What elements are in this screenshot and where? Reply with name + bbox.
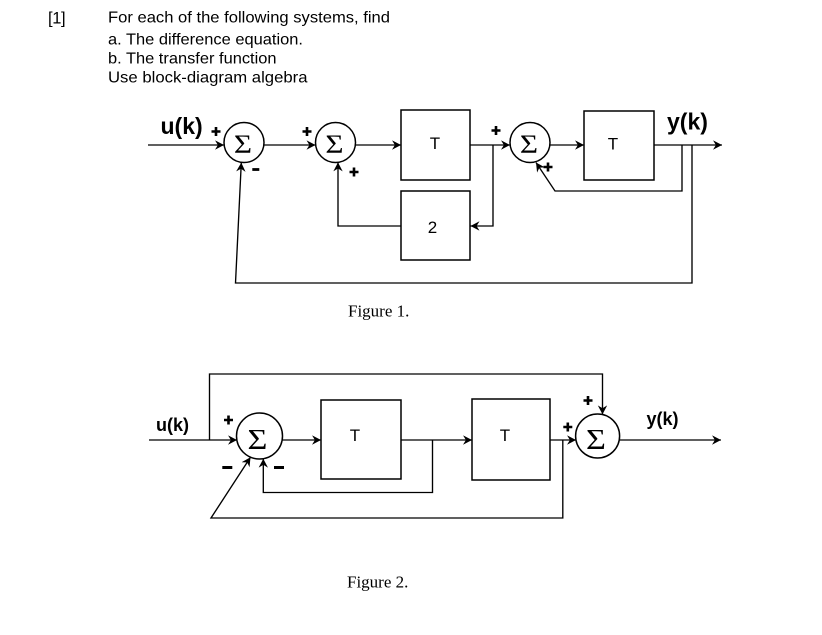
wire input u(k) to summer S4	[149, 439, 237, 441]
block T4	[472, 399, 550, 480]
wire T3 to T4	[401, 439, 472, 441]
minus sign at S4 left lower input	[222, 466, 232, 469]
svg-text:b. The transfer function: b. The transfer function	[108, 51, 277, 68]
svg-text:2: 2	[428, 218, 437, 237]
wire tap to block 2 input	[471, 145, 494, 226]
block 2	[401, 191, 470, 260]
svg-text:Σ: Σ	[586, 424, 606, 456]
svg-text:T: T	[608, 135, 618, 154]
wire inner feedback T3-T4 tap to S4	[263, 440, 432, 493]
svg-text:Figure 1.: Figure 1.	[348, 302, 409, 321]
wire S4 to block T3	[283, 439, 322, 441]
block T3	[321, 400, 401, 479]
wire input u(k) to summer S1	[148, 144, 224, 146]
plus sign at S3 input	[492, 126, 501, 135]
svg-text:T: T	[500, 426, 510, 445]
minus sign at S1 lower input	[252, 168, 259, 171]
minus sign at S4 right lower input	[274, 466, 284, 469]
svg-text:Σ: Σ	[248, 424, 268, 456]
svg-text:u(k): u(k)	[161, 113, 203, 139]
svg-text:T: T	[350, 426, 360, 445]
wire block 2 output to S2	[338, 162, 401, 226]
summing junction S1	[224, 123, 264, 163]
wire T1 to S3	[470, 144, 510, 146]
plus sign at S3 lower input	[544, 163, 553, 172]
wire output y(k)	[620, 439, 721, 441]
summing junction S3	[510, 123, 550, 163]
plus sign at S2 lower input	[350, 168, 359, 177]
wire S1 to S2	[264, 144, 316, 146]
wire output y(k)	[654, 144, 722, 146]
wire outer feedback T4-S6 tap to S4	[211, 440, 563, 518]
plus sign at S4 input	[224, 416, 233, 425]
wire T4 to S6	[550, 439, 576, 441]
svg-text:T: T	[430, 134, 440, 153]
wire S2 to block T1	[356, 144, 402, 146]
svg-text:For each of the following syst: For each of the following systems, find	[108, 10, 390, 27]
plus sign at S1 input	[212, 127, 221, 136]
summing junction S2	[316, 123, 356, 163]
svg-text:y(k): y(k)	[667, 109, 708, 135]
svg-text:u(k): u(k)	[156, 415, 189, 435]
svg-text:Σ: Σ	[325, 130, 343, 159]
wire feedforward from input to S6	[210, 374, 603, 440]
block T1	[401, 110, 470, 180]
summing junction S6	[576, 414, 620, 458]
block T2	[584, 111, 654, 180]
wire feedback tap to S3	[536, 145, 682, 191]
svg-text:[1]: [1]	[48, 10, 66, 28]
plus sign at S2 input	[303, 127, 312, 136]
wire S3 to block T2	[550, 144, 584, 146]
summing junction S4	[237, 413, 283, 459]
svg-text:Σ: Σ	[520, 130, 538, 159]
svg-text:a. The difference equation.: a. The difference equation.	[108, 32, 303, 49]
svg-text:Σ: Σ	[234, 130, 252, 159]
plus sign at S6 left input	[563, 423, 572, 432]
plus sign at S6 top input	[584, 396, 593, 405]
svg-text:y(k): y(k)	[647, 409, 679, 429]
wire outer feedback to S1	[236, 145, 693, 283]
svg-text:Figure 2.: Figure 2.	[347, 573, 408, 592]
svg-text:Use block-diagram algebra: Use block-diagram algebra	[108, 70, 308, 87]
